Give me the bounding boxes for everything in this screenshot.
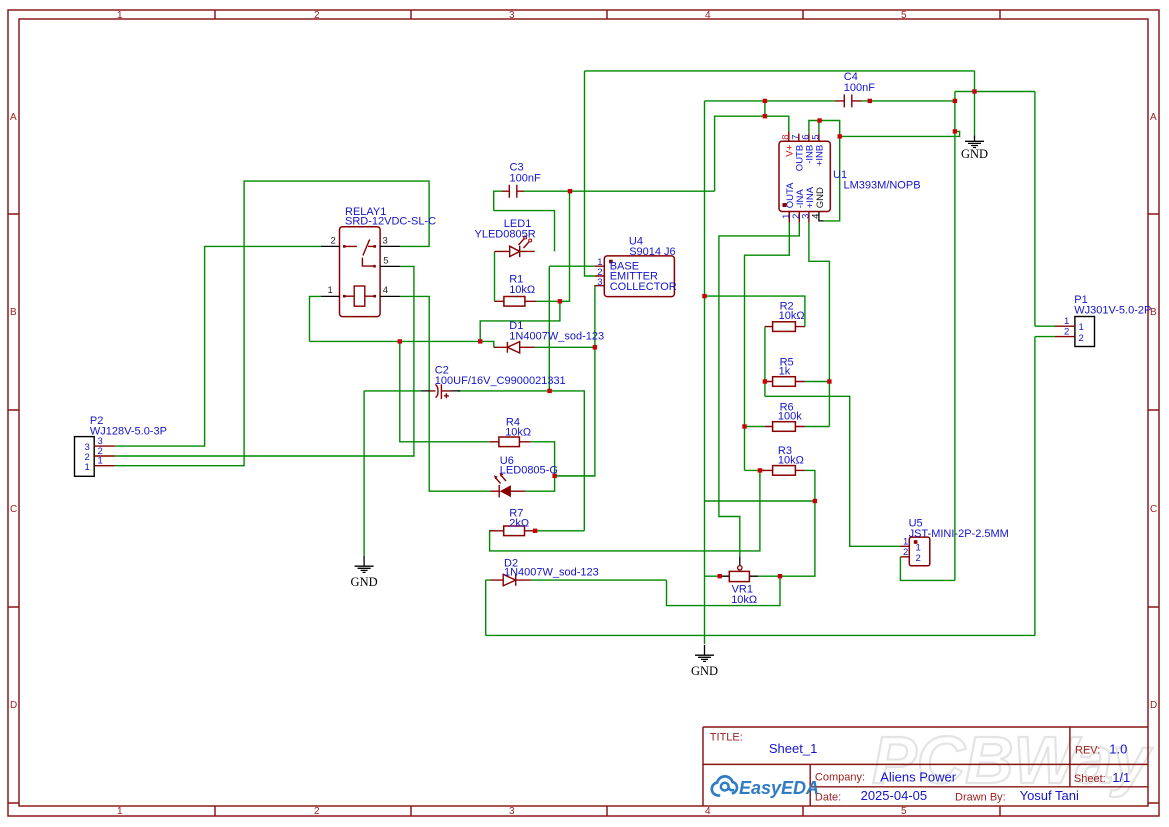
svg-text:10kΩ: 10kΩ [505,426,531,438]
wire R4 feed from D1 row [400,341,490,441]
wire R6 left lead [745,426,765,428]
LED U6 LED0805-G [490,455,558,498]
svg-text:4: 4 [810,214,821,219]
junction node R5 left [763,379,767,383]
svg-text:EasyEDA: EasyEDA [739,778,819,798]
junction node U1 pin5 tie [817,118,821,122]
svg-text:1: 1 [98,455,103,466]
junction node D1 row mid [478,339,482,343]
svg-text:1: 1 [117,10,123,21]
wire U4 base drop [548,266,550,391]
svg-text:2: 2 [916,553,921,564]
wire P2 pin1 to relay pin3 loop [115,181,429,466]
wire U5 pin2 row [900,557,955,581]
junction node U1 GND jog right [953,129,957,133]
wire relay pin4 to U6 anode [400,296,490,491]
svg-text:1N4007W_sod-123: 1N4007W_sod-123 [504,566,599,578]
wire C3 left to LED1 cathode [494,211,555,252]
junction node C3 right [568,189,572,193]
svg-text:2kΩ: 2kΩ [509,517,529,529]
svg-text:100nF: 100nF [510,173,541,185]
svg-text:2: 2 [903,547,908,558]
svg-text:3: 3 [509,806,515,817]
frame ticks bottom [215,806,1000,816]
svg-text:10kΩ: 10kΩ [509,284,535,296]
svg-text:1: 1 [117,806,123,817]
resistor R6 100k [765,402,805,432]
junction node C4 right lead [868,99,872,103]
wire U6 node to collector row [555,475,595,477]
junction node pin8 riser corner [763,114,767,118]
svg-text:COLLECTOR: COLLECTOR [610,281,677,293]
wire divider mid row to U5 pin1 [765,396,901,546]
wire R3 right to VR1 right [758,470,815,576]
svg-text:B: B [10,307,17,318]
svg-text:1/1: 1/1 [1112,770,1130,785]
svg-text:WJ301V-5.0-2P: WJ301V-5.0-2P [1074,305,1151,317]
svg-text:LED0805-G: LED0805-G [500,465,558,477]
junction node C4 to GND bus [953,99,957,103]
diode D2 1N4007W [490,558,598,586]
capacitor C2 100UF polarized [421,365,566,400]
junction node R3 row corner [813,499,817,503]
resistor R5 1k [765,357,805,387]
connector U5 JST-MINI-2P-2.5MM [901,518,1009,566]
resistor R7 2k [490,508,535,536]
wire relay pin2 to P2 pin3 [115,246,321,446]
svg-text:3: 3 [597,277,602,288]
junction node C2 right [547,389,551,393]
frame ticks top [215,10,1000,19]
wire C3 row [494,191,715,210]
svg-text:100k: 100k [778,411,802,423]
svg-text:2025-04-05: 2025-04-05 [861,788,928,803]
resistor R4 10k [490,417,532,447]
wire D2 row [486,579,667,581]
wire bottom bus [486,634,1036,636]
wire U1 pin5 riser [818,121,820,134]
svg-text:2: 2 [314,10,320,21]
frame ticks right [1148,214,1159,803]
wire R3 row node [705,500,815,502]
svg-text:Drawn By:: Drawn By: [955,792,1006,804]
svg-text:Yosuf Tani: Yosuf Tani [1020,788,1079,803]
svg-text:YLED0805R: YLED0805R [475,229,536,241]
wire U4 base row [549,265,594,267]
frame ticks left [8,214,19,803]
svg-text:2: 2 [331,235,336,246]
wire C4 row left (V+) [705,100,835,102]
svg-text:1: 1 [903,537,908,548]
svg-text:5: 5 [901,10,907,21]
junction node R1 right [558,299,562,303]
wire P1 pin2 row [1035,336,1055,338]
svg-text:100nF: 100nF [844,82,875,94]
junction node V+ pin8 tap [763,99,767,103]
wire P1 pin1 row [1035,325,1055,327]
wire R5 right lead [805,381,830,383]
wire P1 pin1 vertical [1034,92,1036,327]
svg-text:4: 4 [383,285,388,296]
junction node R7 right [533,529,537,533]
svg-text:+INB: +INB [814,145,825,166]
EasyEDA logo [712,776,819,798]
svg-text:S9014 J6: S9014 J6 [629,246,675,258]
svg-text:1k: 1k [779,366,791,378]
svg-text:GND: GND [961,147,988,161]
junction node R2 feed [702,294,706,298]
wire R2 feed row [705,296,805,327]
svg-text:1: 1 [1079,322,1084,333]
wire U1 pin2 to VR1 wiper [719,223,799,557]
wire V+ to U1 pin8 [715,101,789,191]
junction node R3 left [758,468,762,472]
op-amp U1 LM393M/NOPB [779,132,921,223]
svg-text:2: 2 [314,806,320,817]
svg-text:4: 4 [705,10,711,21]
svg-text:1: 1 [916,543,921,554]
svg-text:Aliens Power: Aliens Power [880,770,957,785]
wire GND symbol drop top-right [974,71,976,135]
svg-text:1: 1 [328,285,333,296]
wire R2 left to R5 left [764,327,766,397]
svg-text:C: C [1150,504,1157,515]
wire R7 row right [535,530,585,532]
svg-text:2: 2 [1064,326,1069,337]
potentiometer VR1 10k [721,556,758,605]
svg-text:A: A [1150,112,1157,123]
svg-text:10kΩ: 10kΩ [731,594,757,606]
ground GND left [351,556,378,589]
LED LED1 YLED0805R [475,218,536,257]
wire LED1 anode to R1 [494,251,496,301]
svg-text:WJ128V-5.0-3P: WJ128V-5.0-3P [90,426,167,438]
svg-text:2: 2 [1079,333,1084,344]
resistor R2 10k [765,301,805,332]
svg-text:D: D [1150,700,1157,711]
wire D1 upper row [310,341,494,347]
svg-text:Company:: Company: [815,772,865,784]
svg-text:10kΩ: 10kΩ [778,455,804,467]
wire U1 pin3 to R5/R6 right [809,223,830,427]
wire GND row y=91.5 [955,91,1035,93]
svg-text:10kΩ: 10kΩ [779,310,805,322]
svg-text:1N4007W_sod-123: 1N4007W_sod-123 [509,331,604,343]
resistor R1 10k [495,274,537,307]
connector P1 WJ301V-5.0-2P [1055,294,1151,347]
capacitor C4 100nF [835,71,875,107]
wire U4 collector drop [555,286,595,476]
transistor U4 S9014 [595,236,677,297]
svg-text:GND: GND [351,575,378,589]
junction node VR1 right [778,574,782,578]
diode D1 1N4007W [494,320,604,353]
junction node U1 GND jog left [838,134,842,138]
wire R3 left lead join [745,469,765,471]
junction node GND symbol top-right [972,89,976,93]
wire relay pin1 to D1 row [310,296,321,341]
svg-text:1: 1 [85,462,90,473]
svg-text:LM393M/NOPB: LM393M/NOPB [844,180,921,192]
junction node U6 cathode tap [552,474,556,478]
relay RELAY1 [321,206,436,317]
resistor R3 10k [760,445,805,475]
wire U1 pin5-pin6 tie [809,121,840,221]
wire C4 row right (GND) [862,100,955,102]
svg-text:A: A [10,112,17,123]
wire right GND vertical [954,92,956,581]
svg-text:5: 5 [901,806,907,817]
ground GND bottom-middle [691,645,718,678]
wire U1 GND jog to right bus [840,131,960,136]
svg-text:TITLE:: TITLE: [710,732,743,744]
svg-text:D: D [10,700,17,711]
wire U4 emitter from top bus [585,71,595,276]
junction node R6 left [742,424,746,428]
connector P2 WJ128V-5.0-3P [75,415,167,476]
svg-text:3: 3 [509,10,515,21]
svg-text:5: 5 [811,135,822,140]
wire P1 pin2 vertical [1034,337,1036,636]
wire R7 left down [490,470,760,551]
title block frame [703,727,1148,806]
svg-text:JST-MINI-2P-2.5MM: JST-MINI-2P-2.5MM [909,528,1009,540]
svg-text:GND: GND [691,664,718,678]
junction node VR1 left [718,574,722,578]
wire U1 pin1 to R6/R3 [745,223,790,471]
wire VR1 left to GND vertical [705,575,722,577]
wire D1 cathode to C3/LED riser [535,346,595,348]
svg-text:REV:: REV: [1075,745,1100,757]
svg-text:1.0: 1.0 [1109,742,1127,757]
junction node D1 cathode [593,345,597,349]
svg-text:GND: GND [815,187,826,208]
wire R1 right to base node riser [536,191,569,301]
wire top GND bus y=71 [585,70,975,72]
junction node R5 right [827,379,831,383]
svg-text:SRD-12VDC-SL-C: SRD-12VDC-SL-C [345,216,436,228]
svg-text:Sheet_1: Sheet_1 [769,741,817,756]
wire node to D1 row jog [480,301,560,341]
svg-text:3: 3 [383,235,388,246]
svg-text:4: 4 [705,806,711,817]
svg-text:100UF/16V_C9900021331: 100UF/16V_C9900021331 [435,375,566,387]
ground GND top-right [961,135,988,160]
svg-text:Sheet:: Sheet: [1074,773,1106,785]
svg-text:5: 5 [383,256,388,267]
wire VR1 right branch down [667,576,781,605]
wire C2 row left [364,390,421,392]
wire D2 anode to bottom bus [485,580,487,635]
wire relay pin5 to P2 pin2 [115,266,414,456]
wire C2 left to GND [363,391,365,556]
wire long V+/GND vertical [704,101,706,644]
junction node D1 row left [398,339,402,343]
wire R4 right to U6 cathode [525,442,554,491]
capacitor C3 100nF [502,162,541,198]
svg-text:C: C [10,504,17,515]
wire R6 right lead [805,426,830,428]
wire C2 row right [458,391,585,531]
